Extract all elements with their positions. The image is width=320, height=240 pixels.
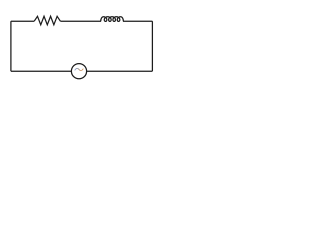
wire left side (10, 21, 12, 71)
wire top-middle segment (60, 20, 101, 22)
wire top-right segment (123, 20, 152, 22)
inductor L1 (101, 17, 124, 22)
wire right side (151, 21, 153, 71)
ac source sine symbol (75, 68, 83, 70)
resistor R1 (34, 16, 60, 25)
wire bottom-left segment (11, 70, 72, 72)
wire bottom-right segment (87, 70, 153, 72)
wire top-left segment (11, 20, 34, 22)
ac source V1 circle (71, 64, 86, 79)
